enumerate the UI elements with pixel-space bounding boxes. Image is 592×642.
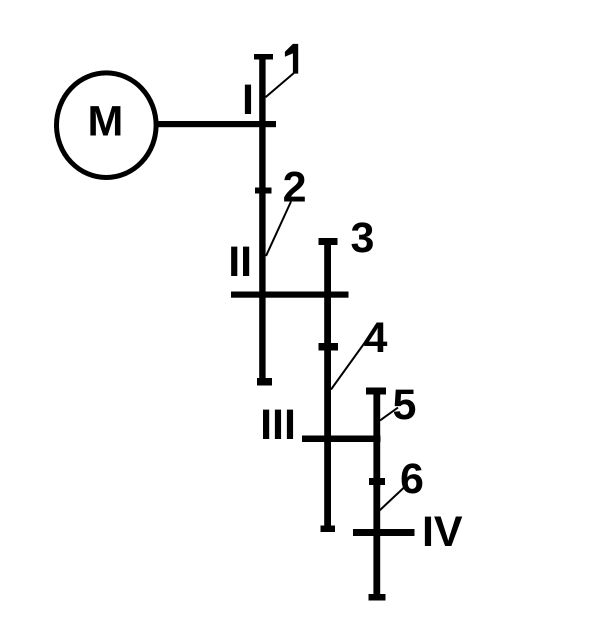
shaft I bbox=[158, 121, 276, 127]
leader 4 bbox=[331, 336, 370, 390]
svg-text:II: II bbox=[228, 238, 252, 286]
leader 2 bbox=[266, 202, 291, 257]
svg-text:5: 5 bbox=[393, 381, 417, 429]
gear 3-4 mesh tick bbox=[319, 343, 339, 351]
leader 1 bbox=[266, 73, 295, 98]
svg-text:2: 2 bbox=[283, 163, 307, 211]
svg-text:III: III bbox=[260, 401, 296, 449]
gear 5 bbox=[373, 388, 380, 488]
leader 6 bbox=[380, 488, 405, 511]
gear 4 bottom rim tick bbox=[321, 526, 336, 533]
svg-text:6: 6 bbox=[400, 455, 424, 503]
gear 1 bbox=[259, 54, 265, 190]
svg-text:3: 3 bbox=[351, 214, 375, 262]
svg-text:M: M bbox=[87, 97, 123, 145]
gear 3 bbox=[324, 238, 331, 350]
gear 1 top rim tick bbox=[254, 54, 273, 60]
gear 6 bottom rim tick bbox=[369, 594, 386, 601]
gear 5-6 mesh tick bbox=[369, 478, 385, 485]
gear 1-2 mesh tick bbox=[255, 188, 272, 194]
shaft IV bbox=[353, 529, 415, 536]
motor M bbox=[57, 73, 157, 178]
gear 4 bbox=[324, 346, 331, 532]
gear 2 bottom rim tick bbox=[257, 378, 272, 386]
shaft III bbox=[302, 436, 381, 443]
leader 5 bbox=[380, 408, 398, 421]
shaft II bbox=[231, 292, 349, 298]
label 1 bbox=[285, 44, 298, 74]
gear 6 bbox=[373, 481, 380, 601]
gear 3 top rim tick bbox=[319, 238, 338, 245]
svg-text:IV: IV bbox=[422, 508, 463, 556]
gear 2 bbox=[259, 190, 265, 385]
svg-text:I: I bbox=[242, 76, 254, 124]
gear 5 top rim tick bbox=[366, 388, 386, 395]
